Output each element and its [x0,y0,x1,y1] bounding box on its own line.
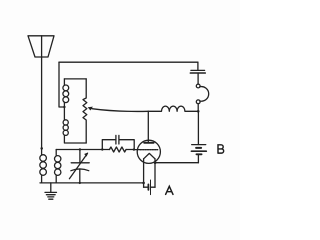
label A [166,186,173,194]
feedback top wire [59,61,198,63]
node filament right [154,161,157,164]
transformer secondary L2 [55,156,61,162]
node phones/choke/B+ [197,110,200,113]
battery A [144,186,148,188]
node grid-cap right [133,148,135,150]
node C1 top [79,148,81,150]
grid capacitor C2 [102,140,115,150]
node grid-cap left [101,148,103,150]
transformer primary L1 [40,155,47,162]
triode V1 [137,140,160,163]
wire main grid line [56,149,109,151]
RF choke L4 [148,106,198,111]
tap arrow to plate [92,109,148,112]
wire bottom ground bus [40,182,144,184]
antenna [28,36,54,57]
node antenna-coil [40,147,43,150]
label B [218,145,224,153]
ground [50,183,52,192]
tickler coil L3b [63,107,65,120]
node C1 bottom [79,182,81,184]
feedback left wire [59,62,64,107]
headphones [196,84,200,88]
wire inner top [64,78,86,80]
node tap [63,106,65,108]
battery B [197,111,199,144]
wire antenna down-lead [41,36,43,155]
wire plate lead [147,111,149,143]
tickler coil L3a [63,79,65,85]
wire B- return [155,162,198,164]
bypass capacitor C3 [197,62,199,70]
node A battery left [142,182,145,185]
variable capacitor C1 [79,150,81,163]
variable winding R2 [83,79,87,143]
filament legs [143,159,145,187]
grid leak R1 [110,147,127,152]
